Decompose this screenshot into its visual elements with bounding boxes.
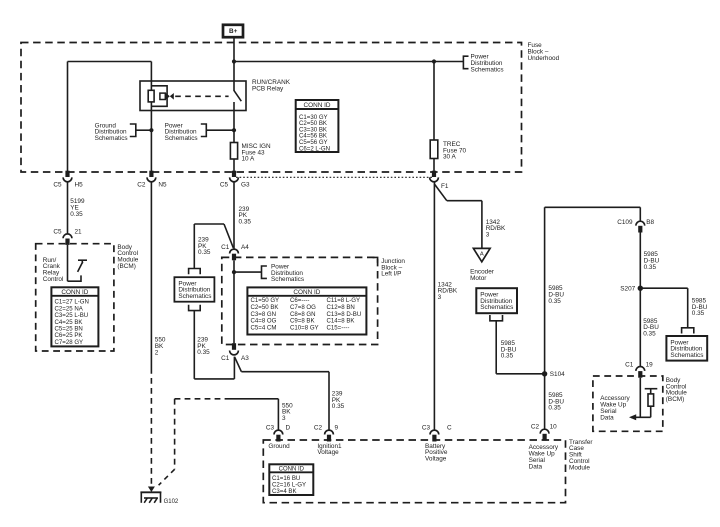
- svg-text:C5: C5: [53, 181, 62, 188]
- svg-text:Data: Data: [600, 414, 614, 421]
- svg-text:0.35: 0.35: [198, 249, 211, 256]
- svg-text:H5: H5: [75, 181, 84, 188]
- svg-text:21: 21: [75, 228, 83, 235]
- svg-text:C3: C3: [266, 425, 275, 432]
- svg-text:C: C: [447, 425, 452, 432]
- svg-text:30 A: 30 A: [443, 154, 457, 161]
- svg-text:(BCM): (BCM): [666, 396, 684, 403]
- svg-text:C7=28 GY: C7=28 GY: [55, 339, 84, 346]
- svg-text:10 A: 10 A: [242, 156, 256, 163]
- svg-text:0.35: 0.35: [239, 219, 252, 226]
- svg-text:C2: C2: [314, 425, 323, 432]
- svg-text:(BCM): (BCM): [117, 263, 135, 270]
- svg-text:3: 3: [282, 415, 286, 422]
- svg-text:10: 10: [550, 424, 558, 431]
- svg-text:C5=4 CM: C5=4 CM: [251, 324, 277, 331]
- svg-text:Schematics: Schematics: [178, 293, 211, 300]
- svg-text:Schematics: Schematics: [271, 276, 304, 283]
- svg-text:C1: C1: [221, 244, 230, 251]
- svg-text:0.35: 0.35: [332, 403, 345, 410]
- svg-text:C2: C2: [531, 424, 540, 431]
- svg-text:C2: C2: [137, 181, 146, 188]
- svg-text:C5: C5: [220, 181, 229, 188]
- svg-text:Left I/P: Left I/P: [381, 271, 401, 278]
- svg-text:C5: C5: [53, 228, 62, 235]
- svg-text:3: 3: [438, 294, 442, 301]
- svg-text:0.35: 0.35: [197, 349, 210, 356]
- svg-text:0.35: 0.35: [501, 353, 514, 360]
- svg-text:3: 3: [486, 232, 490, 239]
- svg-text:0.35: 0.35: [548, 405, 561, 412]
- svg-text:CONN ID: CONN ID: [61, 289, 88, 296]
- svg-text:C3=4 BK: C3=4 BK: [272, 488, 297, 495]
- svg-text:Schematics: Schematics: [165, 135, 198, 142]
- svg-text:B+: B+: [229, 28, 238, 35]
- svg-text:19: 19: [646, 362, 654, 369]
- svg-text:S207: S207: [620, 285, 635, 292]
- svg-text:A: A: [480, 252, 484, 258]
- svg-text:C109: C109: [617, 219, 633, 226]
- svg-text:CONN ID: CONN ID: [279, 467, 305, 473]
- svg-text:F1: F1: [441, 183, 449, 190]
- svg-text:A4: A4: [241, 244, 249, 251]
- svg-text:C10=8 GY: C10=8 GY: [290, 324, 319, 331]
- svg-text:Ground: Ground: [268, 443, 290, 450]
- svg-text:S104: S104: [550, 371, 565, 378]
- svg-text:C6=2 L-GN: C6=2 L-GN: [299, 145, 330, 152]
- svg-text:C3: C3: [422, 425, 431, 432]
- svg-text:G3: G3: [241, 181, 250, 188]
- svg-text:Schematics: Schematics: [471, 66, 504, 73]
- svg-text:Voltage: Voltage: [425, 456, 447, 463]
- svg-text:0.35: 0.35: [548, 298, 561, 305]
- svg-text:Module: Module: [569, 464, 590, 471]
- svg-text:Voltage: Voltage: [317, 449, 339, 456]
- svg-text:Schematics: Schematics: [95, 135, 128, 142]
- svg-text:Control: Control: [43, 276, 64, 283]
- svg-text:0.35: 0.35: [644, 264, 657, 271]
- svg-text:2: 2: [155, 349, 159, 356]
- svg-text:PCB Relay: PCB Relay: [252, 86, 284, 93]
- svg-text:CONN ID: CONN ID: [304, 102, 331, 109]
- svg-text:G102: G102: [164, 499, 179, 505]
- svg-text:B8: B8: [646, 219, 654, 226]
- svg-text:0.35: 0.35: [643, 331, 656, 338]
- svg-text:C1: C1: [625, 362, 634, 369]
- svg-text:N5: N5: [158, 181, 167, 188]
- svg-text:0.35: 0.35: [692, 310, 705, 317]
- svg-text:Schematics: Schematics: [670, 352, 703, 359]
- svg-text:D: D: [286, 425, 291, 432]
- svg-text:Schematics: Schematics: [480, 304, 513, 311]
- svg-text:Underhood: Underhood: [528, 55, 560, 62]
- svg-text:Motor: Motor: [470, 275, 487, 282]
- svg-text:C15=----: C15=----: [327, 324, 350, 331]
- svg-text:Data: Data: [529, 464, 543, 471]
- svg-text:0.35: 0.35: [70, 211, 83, 218]
- svg-text:9: 9: [335, 425, 339, 432]
- svg-text:CONN ID: CONN ID: [293, 289, 320, 296]
- svg-text:C1: C1: [221, 355, 230, 362]
- svg-text:A3: A3: [241, 355, 249, 362]
